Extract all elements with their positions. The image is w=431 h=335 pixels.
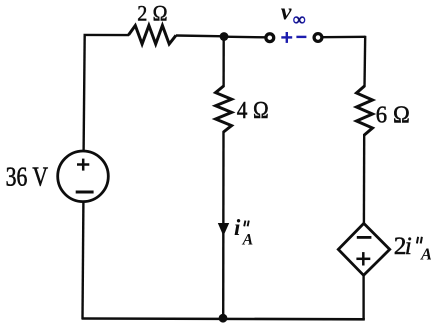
svg-text:A: A [420,244,431,263]
label 4Ω value [237,97,269,124]
resistor 4Ω (vertical zigzag) [216,86,232,132]
polarity minus inside diamond [357,236,372,239]
wire bottom horizontal [82,317,365,320]
svg-text:2 Ω: 2 Ω [137,1,168,26]
wire left vertical (top segment) [84,34,85,151]
resistor 2Ω (zigzag) [129,26,177,45]
svg-text:4 Ω: 4 Ω [237,97,269,124]
label 6Ω value [376,101,411,128]
node B (bottom middle junction dot) [219,314,228,323]
node A (top middle junction dot) [220,32,229,41]
polarity minus of v-port (blue) [296,36,306,38]
polarity plus of v-port (blue) [281,32,292,43]
wire middle vertical from 4Ω to node B [222,131,225,318]
svg-text:i: i [405,231,412,260]
resistor 6Ω (vertical zigzag) [357,86,373,135]
svg-text:A: A [242,232,254,249]
label 2i″A (controlling value) [394,231,431,264]
label 36V source value [6,161,49,191]
wire left vertical (bottom segment) [81,202,84,320]
svg-text:∞: ∞ [293,9,305,29]
arrow i″A (current direction, downward) [218,223,229,236]
dependent source 2i″A (diamond) [338,223,389,275]
wire right vertical from corner to 6Ω [363,36,366,87]
polarity plus inside 36V source [77,159,89,171]
svg-text:6 Ω: 6 Ω [376,101,411,128]
wire top from left corner to 2Ω resistor [84,34,130,37]
label v∞ (port voltage, blue) [281,0,306,29]
wire top from right terminal to top-right corner [323,36,366,39]
terminal circle right of v-port [314,34,322,42]
polarity plus inside diamond [356,252,370,265]
svg-text:i: i [234,215,241,240]
wire top from 2Ω resistor to node A [176,34,225,37]
label 2Ω value [137,1,168,26]
polarity minus inside 36V source [76,191,94,194]
svg-text:36 V: 36 V [6,161,49,191]
label i″A (branch current) [234,215,253,248]
wire right vertical from 6Ω to dependent source [363,134,366,224]
svg-text:v: v [281,0,292,25]
wire right vertical from diamond to bottom-right corner [362,275,364,320]
voltage source 36V (circle) [58,151,109,202]
wire from node A to left terminal of v-port [224,36,265,39]
wire middle vertical from node A to 4Ω [222,37,224,88]
terminal circle left of v-port [266,34,274,42]
